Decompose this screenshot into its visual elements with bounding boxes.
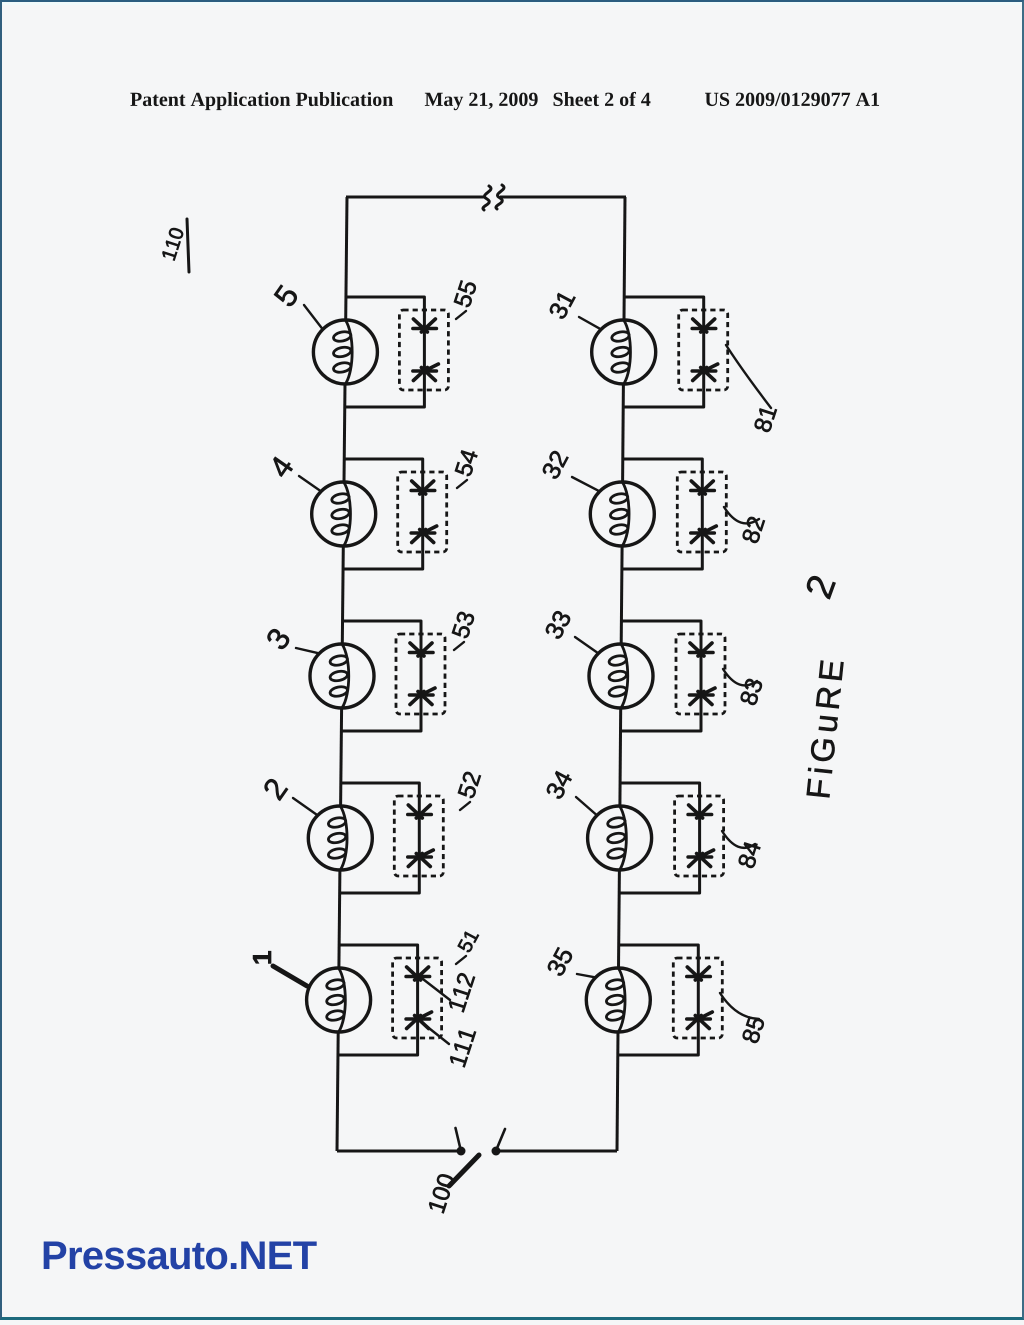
header: sheet number: [554, 92, 651, 106]
shunt 51 back-to-back diodes: [406, 967, 432, 1029]
leader line for lamp 2: [293, 798, 318, 815]
wire: top conductor, left segment: [346, 196, 484, 199]
plug terminal dot, right: [492, 1147, 501, 1156]
leader line for shunt 82: [724, 507, 759, 523]
shunt 83 dashed enclosure: [676, 634, 725, 714]
lamp 35: [586, 968, 650, 1032]
leader line for 111: [420, 1021, 449, 1044]
reference numeral 83 (shunt 83): [739, 677, 763, 706]
leader line for shunt 51: [456, 956, 466, 964]
shunt 84 back-to-back diodes: [688, 805, 714, 867]
wire: bottom conductor, left segment: [337, 1150, 458, 1153]
wire: left supply rail: [346, 197, 347, 320]
shunt 85 dashed enclosure: [673, 958, 722, 1038]
shunt 81 back-to-back diodes: [692, 319, 718, 381]
reference numeral 5 (lamp 5): [273, 284, 299, 308]
leader line for lamp 34: [576, 797, 597, 815]
header: date: [425, 93, 538, 111]
watermark Pressauto.NET: [44, 1241, 317, 1269]
wire: shunt branch loop for lamp 1: [339, 945, 418, 1055]
wire: shunt branch loop for lamp 35: [618, 945, 698, 1055]
reference numeral 31 (lamp 31): [548, 289, 576, 320]
reference numeral 3 (lamp 3): [265, 627, 291, 652]
plug prong, left: [456, 1128, 461, 1147]
shunt 54 back-to-back diodes: [411, 481, 437, 543]
caption FIGURE 2: the numeral 2: [805, 574, 836, 599]
lamp 31: [592, 320, 656, 384]
wire: shunt branch loop for lamp 32: [622, 459, 702, 569]
reference numeral 1 (lamp 1): [253, 951, 271, 963]
shunt 55 back-to-back diodes: [413, 319, 439, 381]
shunt 53 back-to-back diodes: [410, 643, 436, 705]
wire: right supply rail: [624, 197, 625, 320]
reference numeral 112: [448, 972, 475, 1012]
reference numeral 4 (lamp 4): [268, 454, 294, 479]
wire: bottom conductor, right segment: [499, 1150, 617, 1153]
leader line for lamp 3: [296, 648, 319, 653]
shunt 52 dashed enclosure: [394, 796, 443, 876]
lamp 5: [313, 320, 377, 384]
lamp 32: [590, 482, 654, 546]
leader line for shunt 55: [456, 311, 466, 319]
shunt 54 dashed enclosure: [398, 472, 447, 552]
header: publication number: [705, 93, 879, 106]
reference numeral 81 (shunt 81): [753, 405, 777, 434]
shunt 85 back-to-back diodes: [687, 967, 713, 1029]
leader line for shunt 81: [726, 345, 771, 408]
reference numeral 35 (lamp 35): [546, 946, 574, 977]
leader line for lamp 5: [304, 305, 323, 329]
reference numeral 34 (lamp 34): [545, 769, 573, 800]
reference numeral 111: [449, 1027, 476, 1067]
lamp 2: [308, 806, 372, 870]
node label 110: [161, 227, 184, 261]
leader line for lamp 33: [575, 637, 598, 653]
reference numeral 55 (shunt 55): [454, 279, 478, 308]
leader line for shunt 52: [460, 802, 470, 810]
shunt 51 dashed enclosure: [393, 958, 442, 1038]
lamp 1: [307, 968, 371, 1032]
connector 100 leader stroke: [449, 1155, 479, 1186]
reference numeral 85 (shunt 85): [741, 1015, 765, 1044]
reference numeral 53 (shunt 53): [451, 610, 475, 639]
node label 110 underline: [187, 219, 189, 272]
reference numeral 2 (lamp 2): [262, 777, 288, 801]
caption FIGURE 2: [806, 660, 844, 798]
wire: shunt branch loop for lamp 3: [342, 621, 421, 731]
reference numeral 33 (lamp 33): [544, 609, 572, 640]
shunt 83 back-to-back diodes: [690, 643, 716, 705]
lamp 33: [589, 644, 653, 708]
leader line for shunt 53: [454, 642, 464, 650]
leader line for lamp 35: [577, 974, 596, 977]
wire: shunt branch loop for lamp 33: [621, 621, 701, 731]
wire: shunt branch loop for lamp 4: [344, 459, 423, 569]
wire: shunt branch loop for lamp 2: [340, 783, 419, 893]
reference numeral 82 (shunt 82): [741, 516, 765, 545]
leader line for shunt 84: [722, 831, 755, 848]
lamp 34: [588, 806, 652, 870]
wire: shunt branch loop for lamp 31: [624, 297, 704, 407]
plug terminal dot, left: [457, 1147, 466, 1156]
reference numeral 54 (shunt 54): [455, 448, 479, 477]
lamp 4: [312, 482, 376, 546]
leader line for lamp 31: [579, 317, 601, 329]
wire: top conductor, right segment: [500, 196, 626, 199]
shunt 82 back-to-back diodes: [691, 481, 717, 543]
leader line for shunt 54: [457, 480, 467, 488]
leader line for shunt 85: [720, 993, 759, 1019]
lamp 3: [310, 644, 374, 708]
leader line for 112: [419, 976, 450, 1000]
shunt 84 dashed enclosure: [675, 796, 724, 876]
leader line for lamp 4: [299, 476, 321, 491]
reference numeral 32 (lamp 32): [541, 449, 569, 480]
header: Patent Application Publication: [130, 92, 393, 110]
shunt 55 dashed enclosure: [399, 310, 448, 390]
reference numeral 100 (plug): [428, 1173, 456, 1214]
wire: shunt branch loop for lamp 5: [345, 297, 424, 407]
leader line for lamp 32: [572, 477, 600, 491]
shunt 81 dashed enclosure: [679, 310, 728, 390]
shunt 53 dashed enclosure: [396, 634, 445, 714]
shunt 52 back-to-back diodes: [408, 805, 434, 867]
wire: shunt branch loop for lamp 34: [620, 783, 700, 893]
reference numeral 51 (shunt 51): [457, 929, 479, 954]
reference numeral 52 (shunt 52): [457, 771, 481, 800]
reference numeral 84 (shunt 84): [737, 840, 761, 869]
plug prong, right: [498, 1129, 506, 1147]
leader line for lamp 1: [273, 966, 307, 986]
break symbol (continuation squiggles): [483, 185, 504, 210]
leader line for shunt 83: [723, 669, 757, 685]
shunt 82 dashed enclosure: [677, 472, 726, 552]
